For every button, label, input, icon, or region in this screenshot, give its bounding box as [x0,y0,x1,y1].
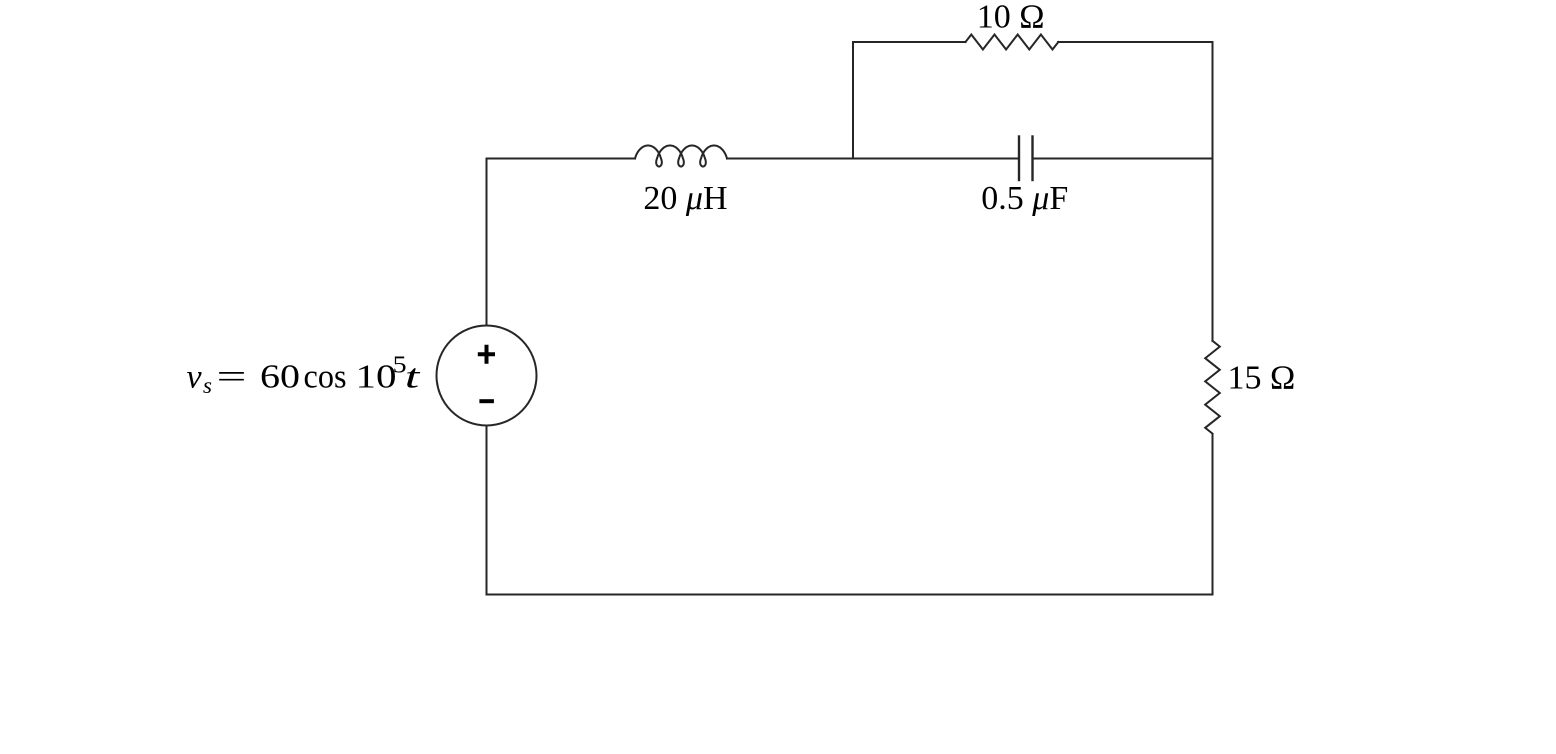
svg-text:=: = [217,359,247,396]
svg-text:10: 10 [356,359,397,396]
resistor 10 ohm zigzag [966,35,1059,50]
wire top horizontal left of main wire to inductor [487,158,636,160]
wire left vertical top segment [486,159,488,326]
voltage source VS circle [437,326,537,426]
svg-text:s: s [203,373,212,398]
resistor 15 ohm zigzag [1205,341,1220,434]
wire right vertical below 15-ohm resistor [1212,435,1214,595]
wire right vertical above 15-ohm resistor [1212,42,1214,341]
wire capacitor right plate to right vertical [1033,158,1213,160]
wire top branch horizontal to 10-ohm resistor [853,41,966,43]
voltage source minus sign [479,399,494,403]
svg-text:t: t [405,359,422,396]
voltage source plus sign [478,345,495,364]
inductor L 20uH coil [635,146,727,167]
svg-text:10 Ω: 10 Ω [977,0,1045,36]
svg-text:cos: cos [304,359,347,396]
svg-text:v: v [187,359,203,396]
capacitor C 0.5uF left plate [1018,137,1020,181]
wire bottom horizontal [487,594,1213,596]
svg-text:20 μH: 20 μH [643,180,727,217]
svg-text:60: 60 [260,359,300,396]
wire inductor to capacitor left plate [727,158,1019,160]
wire 10-ohm resistor to top-right corner [1058,41,1212,43]
svg-text:15 Ω: 15 Ω [1228,359,1296,396]
wire top branch left vertical [852,42,854,159]
svg-text:0.5 μF: 0.5 μF [981,180,1068,217]
wire left vertical bottom segment [486,426,488,595]
capacitor C 0.5uF right plate [1031,137,1033,181]
